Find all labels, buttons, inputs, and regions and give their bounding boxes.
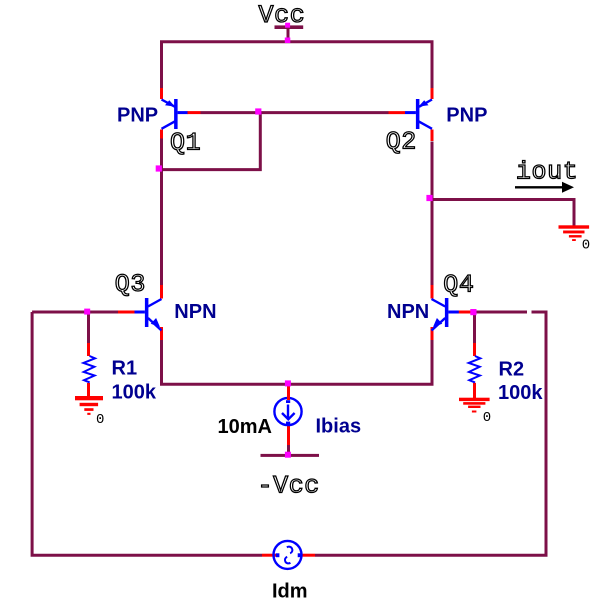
- svg-text:100k: 100k: [112, 382, 157, 404]
- svg-text:PNP: PNP: [446, 104, 487, 126]
- svg-text:R2: R2: [499, 359, 525, 381]
- svg-text:PNP: PNP: [117, 104, 158, 126]
- svg-text:0: 0: [582, 238, 590, 254]
- svg-text:iout: iout: [516, 158, 578, 187]
- svg-text:Q2: Q2: [386, 128, 417, 157]
- svg-text:100k: 100k: [498, 382, 543, 404]
- svg-text:Idm: Idm: [272, 580, 308, 602]
- svg-text:0: 0: [483, 410, 491, 426]
- svg-text:Ibias: Ibias: [316, 416, 362, 438]
- svg-text:NPN: NPN: [387, 301, 429, 323]
- svg-text:R1: R1: [112, 358, 138, 380]
- svg-text:Q4: Q4: [443, 270, 474, 299]
- svg-text:Q3: Q3: [115, 270, 146, 299]
- svg-text:-Vcc: -Vcc: [258, 472, 320, 501]
- svg-text:0: 0: [96, 412, 104, 428]
- svg-text:Q1: Q1: [170, 129, 201, 158]
- svg-text:Vcc: Vcc: [259, 1, 306, 30]
- svg-text:10mA: 10mA: [218, 416, 272, 438]
- svg-text:NPN: NPN: [174, 301, 216, 323]
